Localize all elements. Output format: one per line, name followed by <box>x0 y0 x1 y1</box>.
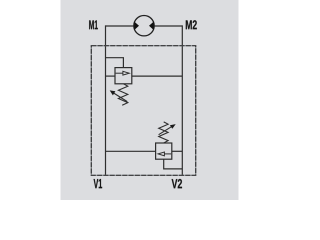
port label V1 <box>94 179 103 188</box>
wire M2 top horizontal <box>154 25 183 27</box>
relief valve RV2 box <box>156 143 172 159</box>
relief valve RV1 spring <box>118 84 127 106</box>
wire M1 vertical line <box>105 25 107 175</box>
valve block dashed boundary <box>91 46 195 176</box>
relief valve RV1 box <box>115 68 132 84</box>
wire M2 vertical line <box>181 25 183 175</box>
port label M1 <box>89 20 98 29</box>
wire RV2 right port to M2 line <box>172 150 183 152</box>
relief valve RV1 adjustment arrow <box>110 90 128 101</box>
wire M1 top horizontal <box>106 25 135 27</box>
motor left arrowhead <box>134 22 139 30</box>
relief valve RV1 flow arrow <box>116 71 130 75</box>
motor right arrowhead <box>149 22 154 30</box>
port label M2 <box>186 20 197 29</box>
wire RV1 left port to M1 line <box>106 75 116 77</box>
port label V2 <box>172 179 182 188</box>
relief valve RV2 spring <box>159 122 168 143</box>
relief valve RV2 adjustment arrow <box>159 124 176 135</box>
relief valve RV2 flow arrow <box>158 152 171 156</box>
wire RV1 right port to M2 line <box>132 75 183 77</box>
wire RV2 left port to M1 line <box>106 150 156 152</box>
relief valve RV1 pilot wire <box>106 58 124 68</box>
schematic sheet background <box>61 0 239 200</box>
motor M1 circle <box>134 16 154 36</box>
relief valve RV2 pilot wire <box>164 159 183 169</box>
